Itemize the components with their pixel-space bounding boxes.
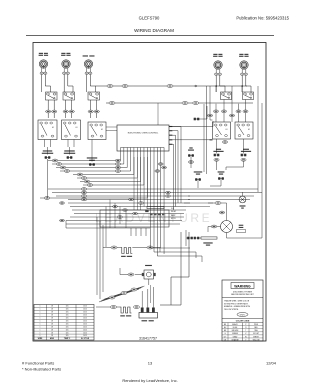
svg-text:# Functional Parts: # Functional Parts [22,361,54,366]
svg-text:105: 105 [66,326,69,328]
svg-text:1: 1 [40,315,41,317]
svg-text:YELLOW STRIPE.: YELLOW STRIPE. [224,309,239,311]
svg-text:1015: 1015 [83,306,87,308]
svg-text:TEMP C: TEMP C [64,338,71,340]
svg-text:NOTED FIRST, STRIPE NEXT.: NOTED FIRST, STRIPE NEXT. [224,303,249,305]
svg-text:105: 105 [66,317,69,319]
svg-text:1: 1 [40,326,41,328]
svg-text:1015: 1015 [83,312,87,314]
svg-text:Publication No: 5995423315: Publication No: 5995423315 [236,16,289,21]
svg-text:18: 18 [51,320,53,322]
svg-text:1: 1 [40,332,41,334]
svg-text:WARNING: WARNING [234,284,251,288]
svg-text:WIRING DIAGRAM: WIRING DIAGRAM [134,28,174,33]
svg-text:H1: H1 [101,129,103,131]
svg-text:1: 1 [40,320,41,322]
svg-text:ELECTRONIC OVEN CONTROL: ELECTRONIC OVEN CONTROL [128,133,159,135]
svg-text:18: 18 [51,306,53,308]
svg-text:DLB: DLB [171,208,174,210]
svg-text:1: 1 [40,317,41,319]
svg-text:18: 18 [51,312,53,314]
svg-text:AWG: AWG [50,337,55,340]
svg-text:H1: H1 [225,129,227,131]
svg-text:18: 18 [51,329,53,331]
svg-text:1015: 1015 [83,326,87,328]
svg-text:1: 1 [40,306,41,308]
svg-text:1: 1 [40,312,41,314]
svg-text:105: 105 [66,320,69,322]
svg-text:H1: H1 [248,129,250,131]
svg-text:105: 105 [66,315,69,317]
svg-text:EXAMPLE : GREEN WIRE WITH: EXAMPLE : GREEN WIRE WITH [224,305,251,308]
svg-text:BEFORE SERVICING UNIT: BEFORE SERVICING UNIT [231,294,254,296]
svg-text:COLOR CODE: COLOR CODE [236,321,250,323]
svg-text:316417757: 316417757 [139,337,157,341]
svg-text:1015: 1015 [83,323,87,325]
svg-text:LEADVENTURE: LEADVENTURE [95,211,212,225]
svg-text:105: 105 [66,309,69,311]
svg-text:105: 105 [66,329,69,331]
svg-text:H1: H1 [75,127,77,129]
svg-text:1015: 1015 [83,329,87,331]
svg-text:YELLOW: YELLOW [252,339,259,341]
svg-text:18: 18 [51,323,53,325]
svg-text:105: 105 [66,306,69,308]
svg-text:1: 1 [40,329,41,331]
svg-text:GLEFS790: GLEFS790 [139,16,160,21]
svg-text:1: 1 [40,323,41,325]
svg-text:105: 105 [66,312,69,314]
svg-text:1015: 1015 [83,317,87,319]
svg-text:1015: 1015 [83,309,87,311]
svg-text:1015: 1015 [83,332,87,334]
svg-text:18: 18 [51,317,53,319]
svg-text:1015: 1015 [83,315,87,317]
svg-text:TRACER WIRE - WIRE COLOR: TRACER WIRE - WIRE COLOR [224,300,250,303]
svg-text:H1: H1 [52,127,54,129]
svg-text:UL STYLE: UL STYLE [81,338,90,340]
svg-text:BROIL: BROIL [171,218,176,220]
svg-text:1015: 1015 [83,320,87,322]
svg-text:18: 18 [51,315,53,317]
svg-text:GN/YL: GN/YL [240,314,245,316]
svg-text:* Non-Illustrated Parts: * Non-Illustrated Parts [22,367,61,372]
svg-text:1: 1 [40,309,41,311]
svg-text:13: 13 [148,361,153,366]
svg-text:ORANGE: ORANGE [231,338,239,341]
svg-text:18: 18 [51,309,53,311]
svg-text:12/04: 12/04 [266,361,277,366]
svg-text:Rendered by LeadVenture, Inc.: Rendered by LeadVenture, Inc. [122,378,177,383]
svg-text:18: 18 [51,332,53,334]
svg-text:105: 105 [66,323,69,325]
svg-text:105: 105 [66,332,69,334]
svg-text:18: 18 [51,326,53,328]
